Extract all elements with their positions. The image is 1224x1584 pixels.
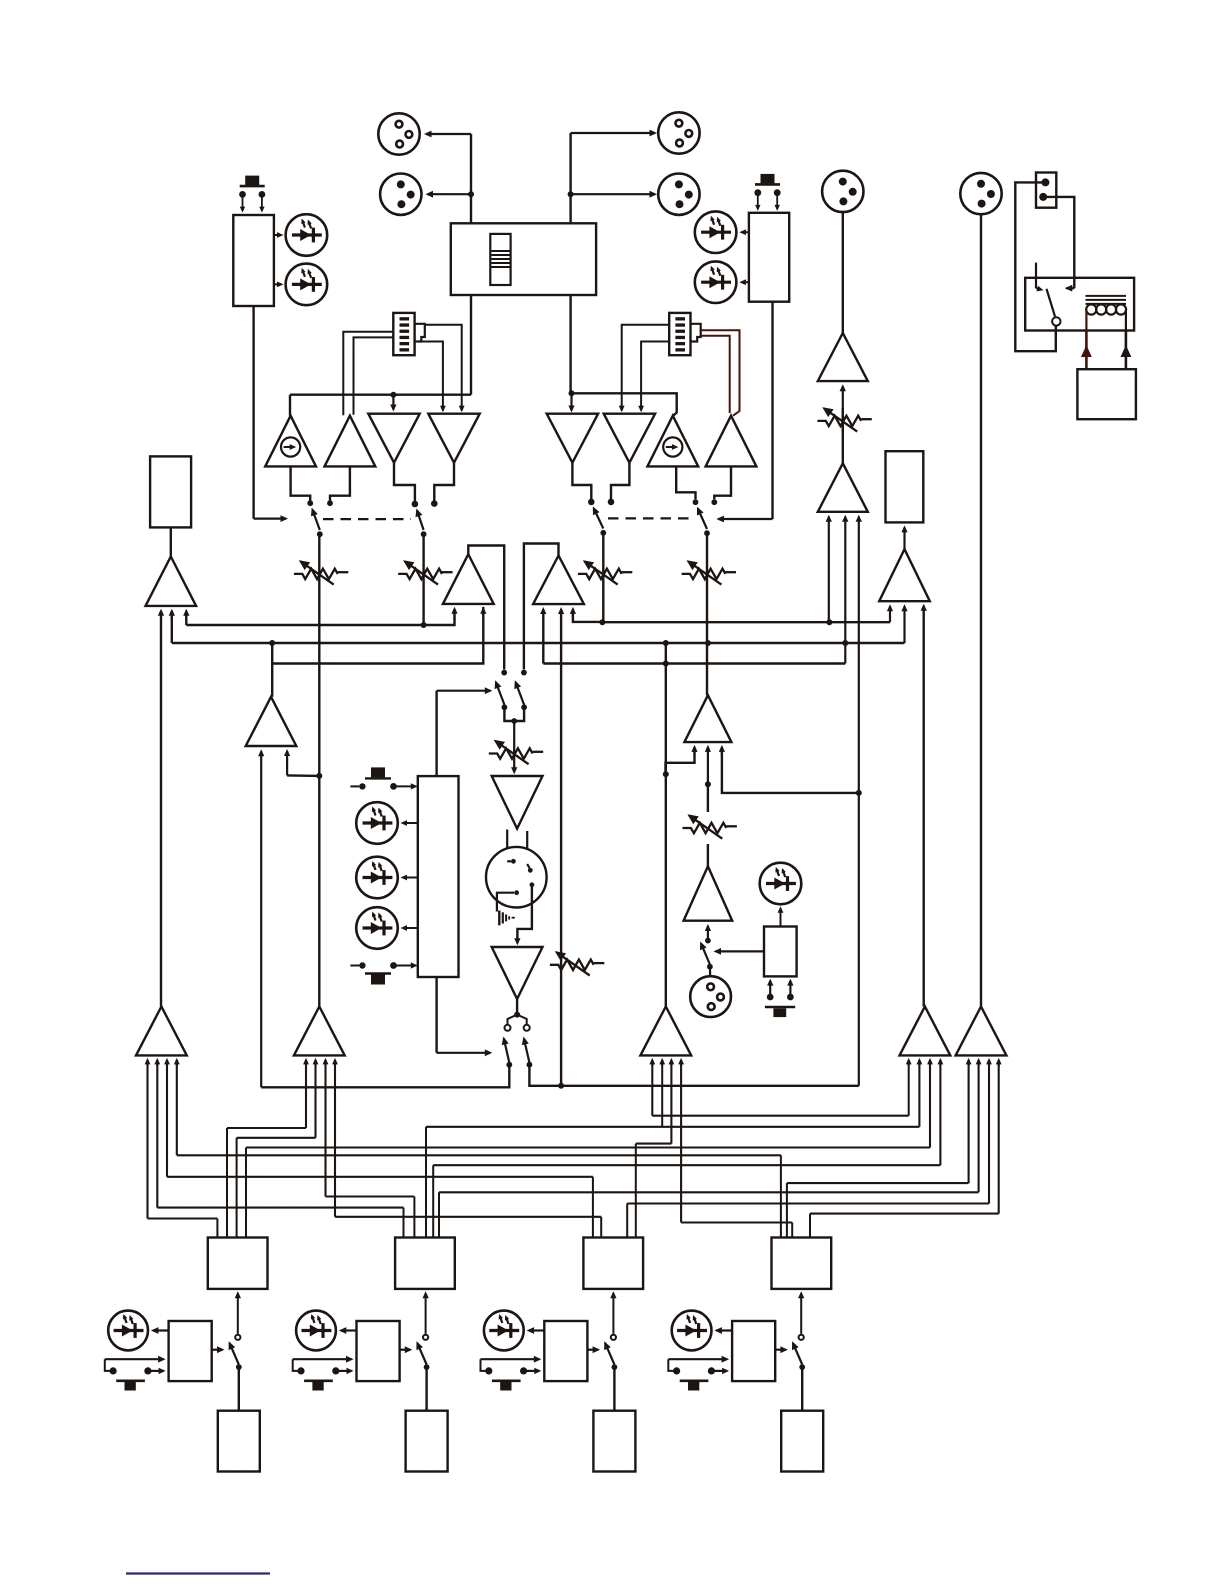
- wire: channel 3 switch to assign block: [610, 1291, 616, 1334]
- node: channel 2 switch contact (open): [423, 1335, 428, 1340]
- wire: phantom block to switch: [714, 948, 765, 955]
- node: junction above buffer L: [569, 390, 575, 396]
- wire: sum amp B to XLR line out: [980, 213, 982, 1006]
- wire: jack R tab to amp R4 apex (brown): [701, 330, 740, 415]
- node: assign contact a (open): [505, 1025, 511, 1031]
- LED indicator L2: [286, 264, 328, 306]
- wire: channel 2 fader line: [425, 1367, 427, 1411]
- wire: pot to driver input: [840, 384, 846, 434]
- node: switch L1 contact a: [307, 500, 313, 506]
- node: switch R1 contact b: [608, 499, 615, 506]
- switch: assign to bus 1: [502, 1037, 510, 1063]
- switch: channel 3 on/off: [604, 1341, 614, 1364]
- node: switch L2 contact b: [431, 500, 438, 507]
- wire: fader block right output down: [569, 295, 571, 393]
- wire: stereo bus a (y624): [183, 607, 457, 625]
- block: left control/jack module: [233, 215, 274, 306]
- node: junction mix bus R: [705, 640, 711, 646]
- XLR connector: main out L (female): [378, 113, 419, 154]
- node: switch L2 contact a: [412, 501, 419, 508]
- block: right control module: [749, 213, 789, 302]
- XLR connector: two-track in (female): [690, 976, 731, 1017]
- wire: record amp input L: [887, 604, 893, 622]
- wire: phantom block legs: [767, 979, 794, 1001]
- wire: arrow into inv amp L3: [390, 396, 396, 412]
- wire: mix L column: [318, 534, 320, 1006]
- push-contact bottom of meter block: [350, 962, 417, 984]
- wire: amp L2 base stub to switch contact: [330, 466, 350, 500]
- wire: assign pole b to monitor sum: [529, 1065, 858, 1086]
- potentiometer: mic trim: [550, 951, 604, 975]
- wire: crossover to right limiter apex: [572, 393, 677, 415]
- node: channel 2 switch pole: [424, 1364, 430, 1370]
- wire: left output column: [470, 134, 472, 223]
- wire: to XLR main out R: [571, 130, 657, 137]
- block: LED meter driver: [418, 776, 459, 977]
- wire: power inlet pin 1 to relay common: [1015, 182, 1056, 351]
- wire: monitor amp L to jack: [170, 527, 172, 556]
- wire: bus to monitor a: [649, 1058, 911, 1116]
- block: channel 1 pan/assign: [208, 1238, 268, 1289]
- op-amp: phones amp L: [900, 1007, 951, 1056]
- wire: bus ch3 to mix R: [332, 1058, 601, 1238]
- ground button: channel 4: [668, 1356, 729, 1391]
- wire: mix bus (y643): [169, 609, 905, 643]
- wire: amp R4 base stub to contact: [714, 466, 731, 499]
- wire: channel 4 mute control: [775, 1346, 788, 1353]
- potentiometer: two-track level: [683, 814, 737, 838]
- op-amp: sum amp B: [533, 556, 584, 605]
- jack: phones/line jack L (RJ-style): [393, 313, 425, 355]
- wire: line amp input b: [284, 749, 319, 776]
- node: assign pole b: [527, 1062, 533, 1068]
- wire: module to LED ch2: [339, 1327, 357, 1334]
- op-amp: amp L2: [325, 416, 376, 467]
- op-amp: talkback amp (inverting): [492, 776, 543, 829]
- wire: bus ch3 to phones R c: [627, 1058, 992, 1238]
- wire: jack R pin to inv amp R2 input a: [619, 325, 669, 413]
- wire: module to LED ch1: [151, 1327, 169, 1334]
- switch: channel 2 on/off: [416, 1341, 426, 1364]
- node: tap for mix R to big amp: [856, 790, 862, 796]
- wire: sum amp B input mid: [558, 607, 564, 1086]
- wire: inv amp L3 output to contact: [394, 463, 415, 501]
- potentiometer: tape level R: [682, 560, 736, 584]
- node: junction below sum: [705, 781, 711, 787]
- wire: mix R column: [602, 533, 604, 622]
- switch: talkback route R: [514, 680, 524, 705]
- wire: fader block left output down: [470, 295, 472, 395]
- block: power supply unit: [1077, 369, 1136, 419]
- op-amp: inverting amp L4: [428, 414, 479, 463]
- block: channel 4 pan/assign: [772, 1238, 832, 1289]
- block: main mix fader: [451, 223, 596, 295]
- switch: channel 4 on/off: [792, 1341, 802, 1364]
- ground button: channel 2: [293, 1356, 354, 1391]
- wire: arrow into buffer triangle: [568, 395, 574, 413]
- wire: channel 3 fader line: [613, 1367, 615, 1411]
- fader slider icon: [490, 234, 510, 285]
- wire: sum amp input 2: [842, 515, 848, 664]
- node: aux switch bottom: [707, 964, 713, 970]
- wire: bus ch2 to mix L: [154, 1058, 403, 1238]
- op-amp: mix sum amp R: [294, 1007, 345, 1056]
- XLR connector: line out R (male): [960, 173, 1001, 214]
- wire: sum amp A hook to talkback contact: [468, 546, 504, 670]
- wire: to lamp 2: [401, 875, 418, 881]
- wire: right module output down to select switch: [716, 302, 772, 523]
- block: channel 3 pan/assign: [583, 1238, 643, 1289]
- wire: tape pot column R: [706, 533, 708, 695]
- node: junction mix bus at monitor amp feed: [842, 640, 848, 646]
- node: switch R2 pole: [704, 530, 710, 536]
- switch: talkback route L: [495, 680, 505, 705]
- XLR connector: monitor out (male): [822, 171, 863, 212]
- wire: to XLR aux out L: [426, 191, 472, 198]
- op-amp: amp R4: [706, 416, 757, 467]
- block: phones jack L: [150, 456, 191, 527]
- block: channel 3 fader: [593, 1411, 635, 1472]
- switch: phones source select L1: [311, 508, 320, 530]
- potentiometer: phones level L: [294, 560, 348, 584]
- wire: right output column: [569, 133, 571, 223]
- block: phantom power: [764, 927, 797, 977]
- wire: sum amp B input left column: [540, 607, 546, 664]
- wire: assign pole a to line amp: [261, 1065, 509, 1088]
- op-amp: sum amp A: [443, 554, 494, 604]
- wire: bus ch1 to mix R: [227, 1058, 309, 1238]
- ground button: channel 3: [481, 1356, 542, 1391]
- wire: left module to LED L1: [274, 232, 284, 238]
- LED: channel 2 clip: [296, 1311, 336, 1351]
- wire: bus ch2 to mix R: [323, 1058, 415, 1238]
- LED meter lamp 1: [356, 802, 398, 844]
- op-amp: monitor amp L: [146, 557, 197, 606]
- push-button above left module: [239, 176, 265, 213]
- wire: meter block top to talkback switch: [437, 687, 493, 776]
- node: switch L1 pole: [317, 531, 323, 537]
- wire: bus monitor d to ch4: [678, 1058, 792, 1238]
- wire: xlr to switch: [709, 967, 711, 977]
- node: talkback contact L: [501, 670, 507, 676]
- wire: channel 1 mute control: [212, 1346, 225, 1353]
- wire: inv amp R2 output to contact: [611, 463, 629, 499]
- wire: assign branch contacts: [508, 1015, 527, 1024]
- op-amp: mix sum amp L: [136, 1007, 187, 1056]
- op-amp: inverting amp R2: [604, 414, 655, 463]
- wire: bus ch1 to phones c: [246, 1058, 933, 1238]
- switch: assign to bus 2: [522, 1037, 530, 1063]
- wire: sum L up to monitor amp: [158, 609, 164, 1007]
- switch: two-track input select: [700, 942, 710, 965]
- wire: module to LED ch4: [714, 1327, 732, 1334]
- wire: bus ch3 to monitor c: [636, 1058, 675, 1238]
- wire: bus ch2 to phones b: [426, 1058, 922, 1238]
- wire: branch down to line amp apex: [271, 643, 273, 697]
- wire: monitor amp output up: [842, 408, 844, 463]
- node: channel 4 switch contact (open): [799, 1335, 804, 1340]
- node: channel 1 switch pole: [236, 1364, 242, 1370]
- block: channel 4 fader: [781, 1411, 823, 1472]
- node: switch R2 contact a: [693, 499, 699, 505]
- wire: channel 3 mute control: [587, 1346, 600, 1353]
- XLR connector: aux out R (male): [658, 174, 699, 215]
- wire: channel 4 fader line: [801, 1367, 803, 1411]
- node: junction control-room bus: [599, 619, 605, 625]
- XLR connector: aux out L (male): [380, 174, 421, 215]
- op-amp: phones amp R: [956, 1007, 1007, 1056]
- wire: talkback amp into jack: [507, 830, 527, 865]
- wire: bus ch2 to phones d: [433, 1058, 943, 1238]
- op-amp: inverting amp L3: [368, 414, 419, 463]
- node: mix bus branch to line amp: [269, 640, 275, 646]
- LED: channel 4 clip: [672, 1311, 712, 1351]
- ground button: channel 1: [105, 1356, 166, 1391]
- node: switch R2 contact b: [711, 499, 717, 505]
- wire: bus ch3 to mix L: [164, 1058, 593, 1238]
- block: channel 2 input module: [357, 1321, 400, 1381]
- wire: tape pot column L: [422, 534, 424, 625]
- op-amp: monitor line driver: [818, 333, 868, 381]
- potentiometer: talkback level: [489, 740, 543, 764]
- wire: to XLR main out L: [424, 131, 471, 138]
- wire: jack L pin to limiter cluster: [343, 332, 393, 416]
- wire: aux bus segment R (y663.5): [543, 662, 845, 664]
- LED: channel 1 clip: [108, 1311, 148, 1351]
- wire: record amp input mix: [901, 604, 907, 643]
- wire: sum input 1 jog: [666, 745, 698, 774]
- wire: node bus to limiter L apex: [289, 395, 291, 416]
- LED indicator R1: [695, 211, 737, 253]
- push-button above right module: [754, 174, 780, 211]
- op-amp: main sum amp (center): [684, 695, 731, 742]
- wire: channel 4 switch to assign block: [798, 1291, 804, 1334]
- switch: tape return select L2: [416, 509, 424, 531]
- node: talkback pole L: [502, 704, 508, 710]
- switch: phones source select R2: [697, 507, 707, 529]
- wire: jack R tab 2 to amp R4 apex (brown): [701, 336, 730, 413]
- decoration: footer link underline: [126, 1572, 270, 1574]
- potentiometer: phones level R: [578, 560, 632, 584]
- wire: transformer lead 2: [1121, 331, 1132, 370]
- switch: channel 1 on/off: [229, 1341, 239, 1364]
- op-amp: talkback mic amp (inverting): [492, 947, 543, 999]
- potentiometer: tape level L: [398, 560, 452, 584]
- node: junction monitor bus: [390, 392, 396, 398]
- op-amp: line amp (center-left): [246, 697, 297, 746]
- wire: right module to LED R2: [739, 279, 749, 285]
- wire: mic amp to assign switches: [516, 999, 518, 1012]
- transformer: mains transformer core: [1086, 296, 1127, 304]
- wire: jog into sum amp B input: [570, 607, 603, 622]
- op-amp: aux input amp: [684, 866, 733, 921]
- node: switch R1 contact a: [588, 499, 595, 506]
- node: junction on stereo bus a: [421, 622, 427, 628]
- switch: tape return select R1: [593, 506, 604, 528]
- wire: left module output down to monitor select switch: [254, 306, 288, 522]
- wire: switch to aux amp: [705, 924, 711, 941]
- wire: inv amp L4 output to contact: [434, 463, 454, 501]
- node: aux switch top: [705, 938, 711, 944]
- op-amp: limiter R (U2): [647, 416, 698, 467]
- wire: monitor amp to XLR: [842, 211, 844, 333]
- wire: block to phantom LED: [778, 906, 784, 926]
- node: assign junction: [514, 1012, 520, 1018]
- node: tap to sum input 1: [663, 771, 669, 777]
- node: monitor column top junction: [663, 640, 669, 646]
- node: channel 1 switch contact (open): [235, 1335, 240, 1340]
- wire: jack L tab to inv amp L4 input b: [422, 342, 446, 413]
- LED: channel 3 clip: [484, 1311, 524, 1351]
- block: channel 2 fader: [406, 1411, 448, 1472]
- node: join lever2 line: [558, 1083, 564, 1089]
- ground: talkback jack sleeve: [499, 911, 515, 926]
- op-amp: inverting amp R1: [547, 414, 598, 463]
- wire: transformer lead 1 (brown): [1081, 331, 1092, 370]
- wire: inv amp R1 output to contact: [572, 463, 591, 499]
- wire: channel 2 switch to assign block: [423, 1291, 429, 1334]
- wire: bus to phones R a: [787, 1058, 972, 1238]
- wire: talkback poles merge: [504, 707, 524, 774]
- op-amp: record out amp: [879, 549, 930, 601]
- wire: aux bus segment L (y663.5): [272, 607, 487, 664]
- node: talkback pole R: [521, 704, 527, 710]
- wire: limiter L base stub to switch contact: [291, 466, 311, 500]
- op-amp: monitor sum amp: [818, 463, 868, 512]
- wire: monitor bus segment: [290, 394, 471, 396]
- node: junction left output column: [468, 191, 474, 197]
- wire: sum input 2: [705, 745, 711, 784]
- node: tap on control-room bus L: [826, 619, 832, 625]
- block: channel 3 input module: [544, 1321, 587, 1381]
- node: junction right output column: [568, 191, 574, 197]
- wire: gang link R (dashed): [608, 517, 694, 519]
- wire: sum amp input 3: [856, 515, 862, 1086]
- node: switch L1 contact b: [327, 500, 333, 506]
- op-amp: monitor sum amp: [640, 1007, 691, 1056]
- op-amp: limiter L (U1): [265, 416, 316, 467]
- node: channel 3 switch pole: [612, 1364, 618, 1370]
- wire: jack R pin 2 to inv amp R2 input b: [638, 342, 669, 413]
- LED indicator R2: [695, 261, 737, 303]
- node: tap to summing amp: [316, 773, 322, 779]
- node: channel 4 switch pole: [799, 1364, 805, 1370]
- wire: channel 1 switch to assign block: [235, 1291, 241, 1334]
- node: talkback contact R: [521, 670, 527, 676]
- wire: channel 2 mute control: [400, 1346, 413, 1353]
- node: assign contact b (open): [524, 1025, 530, 1031]
- block: record out jacks: [886, 451, 924, 522]
- wire: bus ch1 to mix L: [145, 1058, 218, 1238]
- wire: sum amp B hook to talkback contact: [524, 544, 559, 670]
- wire: gang link L (dashed): [323, 518, 411, 520]
- wire: control-room bus (y622): [602, 621, 890, 623]
- node: assign pole a: [506, 1062, 512, 1068]
- wire: sum amp input 1: [826, 515, 832, 622]
- node: switch R1 pole: [600, 530, 606, 536]
- potentiometer: monitor level: [817, 407, 871, 431]
- wire: bus ch2 to phones R b: [439, 1058, 982, 1238]
- wire: pot to aux amp: [707, 844, 709, 866]
- wire: right module to LED R1: [739, 229, 749, 235]
- block: channel 2 pan/assign: [395, 1238, 455, 1289]
- wire: to lamp 1: [401, 820, 418, 826]
- wire: line amp input a: [258, 749, 264, 1087]
- node: junction aux segment R: [663, 661, 669, 667]
- wire: jack L pin 2 to amp L2 apex: [354, 337, 394, 414]
- connector: DC power inlet: [1036, 173, 1056, 208]
- wire: to lamp 3: [401, 925, 418, 931]
- LED indicator phantom: [760, 863, 802, 905]
- wire: record amp input from sum: [921, 604, 927, 1007]
- LED meter lamp 3: [356, 907, 398, 949]
- transformer: secondary coil: [1086, 304, 1126, 330]
- wire: jack L tab to inv amp L4 input a: [425, 325, 465, 413]
- node: channel 3 switch contact (open): [611, 1335, 616, 1340]
- wire: sum input 3 jog: [719, 745, 859, 793]
- wire: LED block bottom to assign arrow: [437, 977, 493, 1056]
- wire: channel 1 fader line: [238, 1367, 240, 1411]
- wire: limiter R base stub to contact: [676, 466, 695, 499]
- block: channel 4 input module: [732, 1321, 775, 1381]
- block: channel 1 input module: [169, 1321, 212, 1381]
- wire: to XLR aux out R: [571, 191, 657, 198]
- LED meter lamp 2: [356, 857, 398, 899]
- wire: two-track chain: [707, 784, 709, 812]
- wire: left module to LED L2: [274, 282, 284, 288]
- wire: power inlet pin 2 to relay contact: [1045, 197, 1074, 292]
- switch: relay contact: [1036, 263, 1061, 326]
- block: power relay: [1025, 278, 1134, 331]
- LED indicator L1: [286, 214, 328, 256]
- jack: talkback insert (circle): [486, 847, 547, 912]
- push-contact top of meter block: [350, 767, 417, 789]
- wire: bus ch1b to mix R: [237, 1058, 319, 1238]
- wire: jack return to mic amp: [514, 887, 532, 945]
- wire: monitor column up: [665, 643, 667, 1007]
- wire: bus ch4 to phones R d: [810, 1058, 1002, 1238]
- wire: bus ch4 to mix L: [174, 1058, 781, 1238]
- XLR connector: main out R (female): [658, 112, 699, 153]
- jack: phones/line jack R (RJ-style): [669, 313, 701, 355]
- wire: amp to record block: [901, 525, 907, 549]
- block: channel 1 fader: [218, 1411, 260, 1472]
- ground button: phantom: [765, 1007, 795, 1017]
- node: switch L2 pole: [421, 531, 427, 537]
- wire: module to LED ch3: [527, 1327, 545, 1334]
